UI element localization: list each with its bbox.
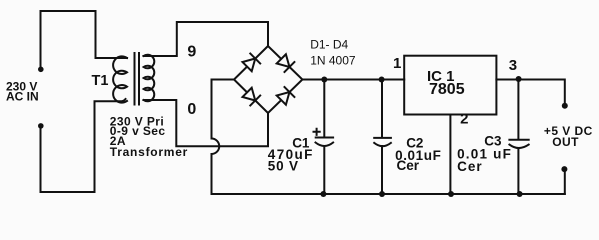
svg-text:9: 9	[187, 44, 196, 61]
svg-text:Cer: Cer	[457, 159, 483, 174]
svg-text:3: 3	[509, 57, 517, 74]
svg-text:Transformer: Transformer	[110, 145, 188, 159]
svg-text:OUT: OUT	[552, 135, 579, 149]
svg-text:T1: T1	[92, 73, 109, 89]
svg-text:7805: 7805	[429, 81, 465, 98]
svg-text:2: 2	[460, 111, 468, 128]
svg-text:AC IN: AC IN	[6, 90, 39, 104]
svg-text:50 V: 50 V	[268, 159, 299, 174]
svg-text:1: 1	[393, 55, 401, 72]
svg-text:0: 0	[187, 101, 196, 118]
svg-text:Cer: Cer	[397, 158, 420, 173]
svg-text:D1- D4: D1- D4	[310, 38, 348, 52]
svg-text:1N 4007: 1N 4007	[310, 54, 356, 68]
